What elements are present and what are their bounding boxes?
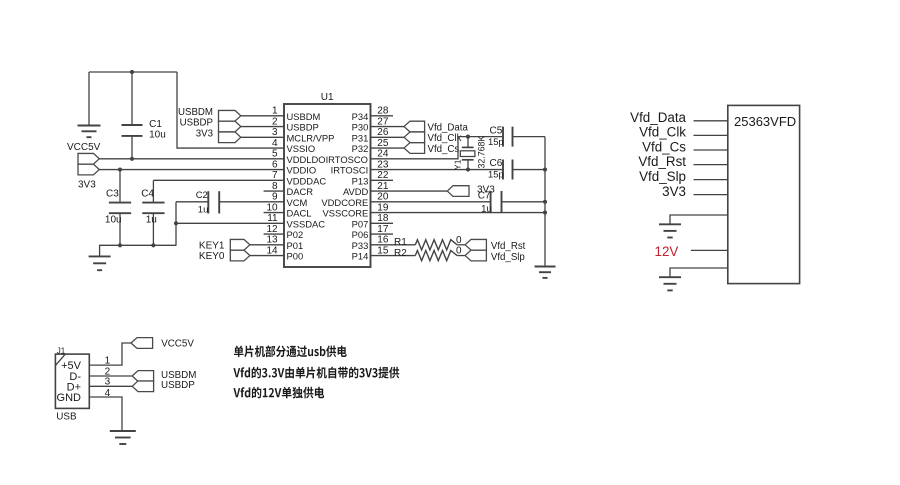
wire VFD 12V — [691, 249, 728, 251]
ground USB — [110, 430, 136, 432]
svg-text:10u: 10u — [105, 214, 122, 225]
resistor R1 — [415, 240, 457, 250]
svg-text:Vfd_Clk: Vfd_Clk — [639, 125, 686, 140]
port 3V3 AVDD — [447, 186, 469, 197]
svg-text:14: 14 — [266, 246, 278, 257]
wire right ground rail — [544, 137, 546, 266]
wire pin to Vfd_Data — [371, 126, 405, 128]
text note line2 — [233, 367, 399, 379]
port KEY0 — [230, 250, 250, 261]
ground VFD gnd1 — [659, 223, 681, 225]
wire J1 pin3 — [89, 385, 132, 387]
capacitor C3 — [119, 170, 121, 203]
svg-text:VSSCORE: VSSCORE — [322, 208, 368, 219]
svg-text:Vfd_Cs: Vfd_Cs — [642, 139, 686, 154]
wire down to pin4 — [177, 72, 284, 148]
junction C4 gnd — [151, 243, 155, 247]
svg-text:Vfd_Cs: Vfd_Cs — [428, 144, 460, 155]
svg-text:VSSIO: VSSIO — [287, 143, 316, 154]
svg-text:C3: C3 — [106, 188, 119, 199]
svg-text:USBDP: USBDP — [180, 118, 213, 129]
wire pin7 from C4 — [153, 179, 284, 181]
wire pin1 — [241, 115, 284, 117]
wire pin15 P14 — [371, 255, 416, 257]
svg-text:P07: P07 — [352, 218, 369, 229]
wire pin to Vfd_Cs — [371, 147, 405, 149]
svg-text:P31: P31 — [352, 132, 369, 143]
wire J1 pin1 to VCC5V — [89, 343, 131, 365]
svg-text:Vfd_Rst: Vfd_Rst — [491, 241, 526, 252]
wire pin21 AVDD — [371, 190, 448, 192]
junction C3 top on 3V3 net — [118, 167, 122, 171]
svg-text:J1: J1 — [57, 346, 66, 355]
port KEY1 — [230, 239, 250, 250]
svg-text:USBDM: USBDM — [178, 107, 213, 118]
wire pin11 VSSDAC — [176, 222, 284, 224]
capacitor C6 — [502, 160, 504, 180]
ground left rail — [89, 255, 111, 257]
svg-text:C6: C6 — [490, 158, 503, 169]
port Vfd_Clk — [404, 132, 425, 143]
svg-text:R1: R1 — [394, 237, 407, 248]
wire pin23 IRTOSCI to C6 — [371, 169, 504, 171]
svg-text:13: 13 — [266, 235, 278, 246]
resistor R2 — [415, 251, 457, 261]
svg-text:2: 2 — [272, 117, 278, 128]
wire pin20 VDDCORE to C7 — [371, 201, 491, 203]
svg-text:3V3: 3V3 — [78, 180, 96, 191]
svg-text:17: 17 — [377, 224, 389, 235]
svg-text:Y1: Y1 — [452, 159, 462, 170]
wire VFD gnd2 — [670, 268, 728, 277]
svg-text:1u: 1u — [481, 204, 492, 215]
port USBDM bottom — [132, 371, 153, 382]
svg-text:VCC5V: VCC5V — [67, 142, 101, 153]
svg-text:USBDP: USBDP — [287, 122, 319, 133]
svg-text:25363VFD: 25363VFD — [734, 114, 796, 129]
junction VSSDAC — [174, 221, 178, 225]
svg-text:P32: P32 — [352, 143, 369, 154]
wire J1 pin4 to ground — [89, 397, 122, 430]
svg-text:DACL: DACL — [287, 208, 312, 219]
wire pin17 stub — [371, 233, 394, 235]
svg-text:26: 26 — [377, 127, 389, 138]
junction VSSCORE rail — [543, 210, 547, 214]
text note line1 — [234, 345, 347, 357]
svg-text:USB: USB — [56, 411, 77, 422]
svg-text:C5: C5 — [490, 125, 503, 136]
svg-text:VDDLDOIRTOSCO: VDDLDOIRTOSCO — [287, 154, 368, 165]
wire pin24 VDDLDOIRTOSCO to crystal/C5 — [371, 137, 504, 159]
svg-text:USBDM: USBDM — [287, 111, 321, 122]
svg-text:R2: R2 — [394, 248, 407, 259]
svg-text:P34: P34 — [352, 111, 369, 122]
svg-text:VDDIO: VDDIO — [287, 165, 317, 176]
svg-text:15p: 15p — [488, 136, 504, 147]
junction C3 gnd — [118, 243, 122, 247]
wire VFD pin Vfd_Clk — [694, 134, 728, 136]
wire pin19 VSSCORE to rail — [371, 212, 546, 214]
junction C7 rail — [543, 200, 547, 204]
svg-text:23: 23 — [377, 160, 389, 171]
svg-text:Vfd_Slp: Vfd_Slp — [639, 169, 686, 184]
port Vfd_Rst — [465, 239, 486, 250]
svg-text:10u: 10u — [149, 130, 166, 141]
port USBDP — [219, 121, 241, 132]
svg-text:VDDDAC: VDDDAC — [287, 175, 327, 186]
svg-text:Vfd_Slp: Vfd_Slp — [491, 252, 525, 263]
port Vfd_Data — [404, 121, 425, 132]
wire pin3 — [241, 136, 284, 138]
svg-text:12V: 12V — [655, 244, 679, 259]
svg-text:P02: P02 — [287, 229, 304, 240]
wire pin to Vfd_Clk — [371, 136, 405, 138]
svg-text:C2: C2 — [196, 190, 208, 201]
junction crystal bottom — [466, 167, 470, 171]
wire VFD pin Vfd_Slp — [694, 179, 728, 181]
port Vfd_Slp — [465, 250, 486, 261]
svg-text:15: 15 — [377, 246, 389, 257]
svg-text:24: 24 — [377, 149, 389, 160]
svg-text:P14: P14 — [352, 251, 369, 262]
svg-text:11: 11 — [267, 213, 278, 224]
text note line3 — [233, 387, 324, 399]
svg-text:32.768K: 32.768K — [477, 136, 487, 169]
wire pin28 stub — [371, 115, 394, 117]
svg-text:GND: GND — [57, 392, 82, 404]
wire top rail VCC5V loop — [89, 71, 177, 73]
svg-text:Vfd_Clk: Vfd_Clk — [428, 133, 462, 144]
wire ground drop top-left — [88, 72, 90, 125]
wire ground rail left — [100, 245, 177, 256]
port USBDM — [219, 110, 241, 121]
svg-text:Vfd_Data: Vfd_Data — [630, 110, 686, 125]
svg-text:22: 22 — [377, 170, 389, 181]
svg-text:P00: P00 — [287, 251, 304, 262]
wire C2 to ground rail — [175, 202, 177, 246]
svg-text:AVDD: AVDD — [343, 186, 369, 197]
crystal Y1 — [467, 137, 469, 148]
svg-text:1u: 1u — [198, 204, 209, 215]
wire VFD pin 3V3 — [694, 194, 728, 196]
svg-text:6: 6 — [272, 160, 278, 171]
junction crystal top — [466, 135, 470, 139]
svg-text:5: 5 — [272, 149, 278, 160]
port VCC5V — [78, 153, 99, 164]
wire pin10 stub DACL — [264, 212, 284, 214]
svg-text:KEY0: KEY0 — [199, 251, 225, 262]
wire R1 to port — [457, 244, 465, 246]
wire R2 to port — [457, 255, 465, 257]
wire VFD gnd1 — [670, 215, 728, 224]
junction C1 top — [130, 70, 134, 74]
op-amp U1 MCU box — [284, 104, 371, 267]
ground right rail — [535, 266, 556, 268]
svg-text:9: 9 — [272, 192, 278, 203]
wire VFD pin Vfd_Rst — [694, 164, 728, 166]
junction C6 rail — [543, 167, 547, 171]
svg-text:C1: C1 — [149, 119, 162, 130]
svg-text:25: 25 — [377, 138, 389, 149]
wire J1 pin2 — [89, 375, 132, 377]
svg-text:USBDP: USBDP — [161, 380, 195, 391]
port Vfd_Cs — [404, 143, 425, 154]
svg-text:21: 21 — [377, 181, 389, 192]
svg-text:4: 4 — [272, 138, 278, 149]
wire C7 to gnd rail — [502, 201, 546, 203]
svg-text:18: 18 — [377, 213, 389, 224]
wire pin5 VCC5V net — [99, 158, 284, 160]
svg-text:MCLR/VPP: MCLR/VPP — [287, 132, 335, 143]
svg-text:7: 7 — [272, 170, 278, 181]
capacitor C5 — [502, 127, 504, 147]
port VCC5V bottom — [131, 338, 153, 349]
svg-text:Vfd_Rst: Vfd_Rst — [638, 154, 686, 169]
svg-text:27: 27 — [377, 117, 389, 128]
VFD module 25363VFD box — [728, 105, 800, 283]
wire VFD pin Vfd_Data — [694, 120, 728, 122]
svg-text:19: 19 — [377, 203, 389, 214]
svg-text:3: 3 — [272, 127, 278, 138]
ground VFD gnd2 — [659, 276, 681, 278]
port 3V3 top — [219, 132, 241, 143]
svg-text:VCM: VCM — [287, 197, 308, 208]
capacitor C2 — [176, 201, 208, 203]
connector J1 box — [55, 354, 89, 408]
svg-text:VDDCORE: VDDCORE — [321, 197, 368, 208]
wire pin2 — [241, 126, 284, 128]
svg-text:VSSDAC: VSSDAC — [287, 218, 326, 229]
svg-text:Vfd_Data: Vfd_Data — [428, 122, 469, 133]
svg-text:P33: P33 — [352, 240, 369, 251]
ground top-left — [78, 125, 101, 127]
svg-text:P30: P30 — [352, 122, 369, 133]
capacitor C7 — [490, 191, 492, 213]
junction C1 bottom on VCC5V net — [130, 157, 134, 161]
svg-text:16: 16 — [377, 235, 389, 246]
svg-text:P13: P13 — [352, 175, 369, 186]
svg-text:3V3: 3V3 — [662, 184, 686, 199]
svg-text:1: 1 — [272, 106, 278, 117]
svg-text:VCC5V: VCC5V — [161, 338, 194, 349]
svg-text:U1: U1 — [321, 92, 334, 103]
wire pin9 VCM — [219, 201, 284, 203]
svg-text:3V3: 3V3 — [196, 129, 213, 140]
capacitor C1 — [131, 72, 133, 125]
connector J1 corner slash — [55, 354, 65, 366]
wire C5 to gnd rail — [513, 136, 546, 138]
capacitor C4 — [152, 180, 154, 202]
svg-text:C7: C7 — [478, 191, 491, 202]
svg-text:8: 8 — [272, 181, 278, 192]
wire pin14 — [250, 255, 284, 257]
wire pin22 stub — [371, 179, 394, 181]
wire pin6 3V3 net — [99, 169, 284, 171]
wire C6 to gnd rail — [513, 169, 546, 171]
svg-text:15p: 15p — [488, 168, 504, 179]
svg-text:28: 28 — [377, 106, 389, 117]
port USBDP bottom — [132, 381, 153, 392]
wire pin18 stub — [371, 222, 394, 224]
svg-text:12: 12 — [266, 224, 278, 235]
wire pin16 P33 — [371, 244, 416, 246]
svg-text:IRTOSCI: IRTOSCI — [331, 165, 369, 176]
wire VFD pin Vfd_Cs — [694, 149, 728, 151]
wire pin12 stub P02 — [264, 233, 284, 235]
wire pin8 stub DACR — [264, 190, 284, 192]
svg-text:P06: P06 — [352, 229, 369, 240]
svg-text:DACR: DACR — [287, 186, 314, 197]
svg-text:KEY1: KEY1 — [199, 240, 225, 251]
wire pin13 — [250, 244, 284, 246]
port 3V3 left — [78, 164, 99, 175]
svg-text:10: 10 — [266, 203, 278, 214]
svg-text:P01: P01 — [287, 240, 304, 251]
svg-text:1u: 1u — [146, 214, 157, 225]
svg-text:20: 20 — [377, 192, 389, 203]
svg-text:C4: C4 — [141, 188, 154, 199]
